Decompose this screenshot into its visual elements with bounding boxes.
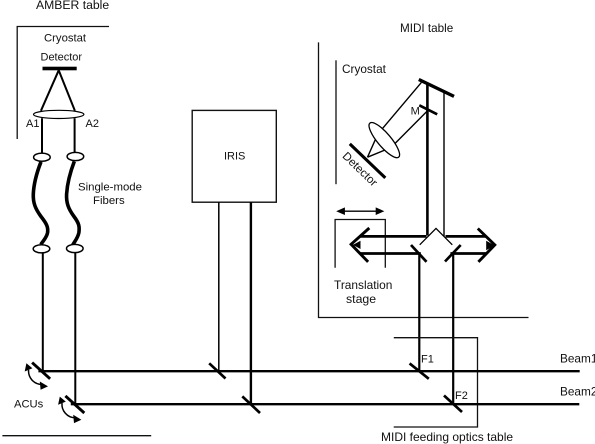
label M (411, 105, 420, 117)
AMBER cryostat outline (17, 27, 109, 140)
mirror tick lower-left of diamond (411, 245, 427, 262)
label A1 (26, 118, 39, 130)
lens L0 (AMBER) (34, 110, 84, 118)
wire beam A1 to coupler (41, 118, 43, 153)
AMBER table edge (2, 435, 151, 437)
label MIDI feeding optics table (381, 430, 513, 444)
ACU tilt arrow 1 (25, 363, 48, 390)
label IRIS (224, 151, 245, 163)
MIDI table outline (319, 42, 529, 317)
svg-text:Cryostat: Cryostat (342, 62, 387, 76)
wire beam down to F2 (452, 253, 454, 404)
fiber coupler top A2 (67, 152, 84, 160)
svg-text:F1: F1 (421, 354, 434, 366)
wire Beam1 (38, 370, 579, 372)
svg-text:IRIS: IRIS (224, 151, 245, 163)
mirror tick IRIS beam1 (209, 363, 225, 378)
label Cryostat (MIDI) (342, 62, 387, 76)
label Translation stage (334, 278, 392, 306)
beam ray upper (MIDI) (368, 82, 422, 157)
label Beam1 (560, 352, 595, 366)
beam cone left (AMBER) (41, 70, 59, 111)
svg-text:stage: stage (346, 292, 376, 306)
lens L1 (MIDI) (365, 119, 404, 162)
beam cone right (AMBER) (59, 70, 75, 111)
label F2 (455, 390, 468, 402)
svg-text:Single-mode: Single-mode (78, 182, 142, 194)
mirror tick F1 (410, 363, 429, 378)
label Detector (AMBER) (41, 52, 83, 64)
beam shaft top line (360, 235, 486, 238)
beam ray lower (MIDI) (368, 110, 429, 157)
fold mirror top (MIDI) (419, 80, 454, 97)
beamsplitter diamond (420, 228, 453, 244)
MIDI cryostat edge (335, 60, 337, 184)
svg-text:Translation: Translation (334, 278, 392, 292)
svg-text:AMBER table: AMBER table (36, 0, 109, 12)
ACU mirror 1 (32, 363, 50, 379)
ACU tilt arrow 2 (58, 397, 81, 424)
mirror tick F2 (444, 396, 462, 413)
svg-text:A2: A2 (86, 118, 99, 130)
beam shaft bottom line (360, 252, 486, 255)
wire beam 1 down to ACU (42, 253, 44, 371)
svg-text:MIDI table: MIDI table (400, 22, 453, 35)
label ACUs (14, 399, 44, 411)
ACU mirror 2 (65, 396, 84, 413)
wire beam 2 down to ACU (74, 253, 76, 404)
svg-text:M: M (411, 105, 420, 117)
svg-text:Beam2: Beam2 (560, 385, 595, 399)
IRIS box (192, 110, 276, 202)
label Beam2 (560, 385, 595, 399)
mirror tick lower-right of diamond (445, 245, 461, 262)
wire beam down to F1 (418, 253, 420, 371)
MIDI feeding optics box (394, 338, 478, 427)
svg-text:Beam1: Beam1 (560, 352, 595, 366)
svg-text:A1: A1 (26, 118, 39, 130)
translation stage box (335, 220, 385, 268)
wire vertical beam left (MIDI) (426, 84, 429, 236)
label Single-mode Fibers (78, 182, 142, 208)
svg-text:Fibers: Fibers (93, 195, 125, 207)
wire IRIS right leg (250, 202, 252, 404)
svg-text:Cryostat: Cryostat (44, 32, 87, 44)
label A2 (86, 118, 99, 130)
svg-text:Detector: Detector (41, 52, 83, 64)
wire beam A2 to coupler (74, 118, 76, 152)
translation stage arrow (336, 207, 384, 215)
svg-text:MIDI feeding optics table: MIDI feeding optics table (381, 430, 513, 444)
svg-text:F2: F2 (455, 390, 468, 402)
svg-text:ACUs: ACUs (14, 399, 44, 411)
label F1 (421, 354, 434, 366)
wire IRIS left leg (218, 202, 220, 371)
fiber coupler top A1 (34, 153, 51, 161)
fiber coupler bottom A2 (67, 244, 84, 252)
mirror M (419, 105, 437, 114)
single-mode fiber 2 (67, 161, 80, 245)
single-mode fiber 1 (33, 162, 47, 245)
arrowhead right (beam out) (478, 229, 495, 262)
detector bar (AMBER) (43, 67, 77, 71)
label Cryostat (AMBER) (44, 32, 87, 44)
mirror tick IRIS beam2 (242, 396, 260, 413)
wire Beam2 (71, 403, 580, 405)
detector bar (MIDI) (350, 144, 386, 178)
label MIDI table (400, 22, 453, 35)
arrowhead left (beam to AMBER) (351, 228, 369, 262)
wire vertical beam right (MIDI) (443, 93, 445, 237)
label AMBER table (36, 0, 109, 12)
fiber coupler bottom A1 (33, 245, 50, 253)
label Detector (MIDI, rotated) (340, 150, 380, 189)
